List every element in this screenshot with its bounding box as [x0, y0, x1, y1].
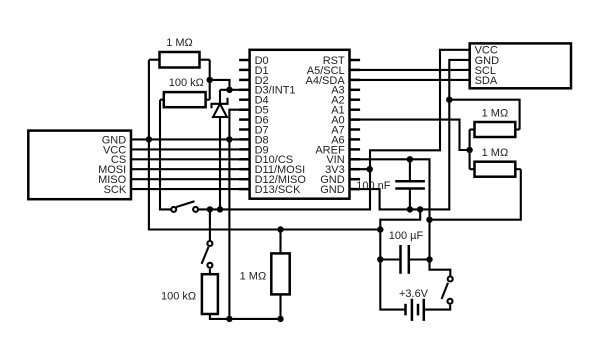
wire SCL: [350, 69, 470, 71]
U1 left pin labels: [255, 55, 307, 196]
wire SPI MISO to D12: [131, 178, 250, 180]
svg-text:1 MΩ: 1 MΩ: [482, 108, 509, 120]
resistor R1 1 MΩ (top left): [149, 52, 210, 68]
svg-text:100 µF: 100 µF: [389, 230, 424, 242]
switch S2: [202, 209, 213, 274]
svg-text:GND: GND: [320, 184, 345, 196]
junction S1 / S2 node A: [207, 206, 213, 212]
junction GND / R3 right: [446, 97, 452, 103]
wire VIN net: VIN pin right, down to S3: [350, 159, 451, 276]
svg-text:+3.6V: +3.6V: [399, 288, 429, 300]
resistor R2 100 kΩ (upper left): [160, 92, 210, 107]
U1 right pin stubs RST-GND: [350, 60, 361, 189]
wire R2 left down to switch S1: [160, 100, 171, 210]
zener diode D1: [212, 90, 228, 210]
SPI module box (left): [28, 131, 131, 200]
junction R5 bottom / rail end: [277, 316, 283, 322]
wire SPI MOSI to D11: [131, 168, 250, 170]
wire tie R3/R4 left: [469, 130, 471, 170]
wire GND branch to battery minus: [380, 209, 420, 309]
junction rail / D5 riser: [226, 316, 232, 322]
svg-text:SCK: SCK: [104, 184, 127, 196]
svg-text:1 MΩ: 1 MΩ: [166, 37, 193, 49]
junction jog / D3 wire: [226, 87, 232, 93]
wire 3V3 pin to riser: [350, 168, 370, 170]
I2C module pin labels: [475, 45, 500, 87]
junction zener anode node B: [217, 206, 223, 212]
wire SPI SCK to D13: [131, 188, 250, 190]
wire A0 to pull-up pair: [350, 120, 470, 150]
capacitor C1 100 nF: [395, 159, 425, 209]
junction 3V3 / riser: [367, 166, 373, 172]
junction R1-left / SPI GND: [146, 136, 152, 142]
svg-text:SDA: SDA: [475, 75, 498, 87]
svg-text:1 MΩ: 1 MΩ: [240, 270, 267, 282]
junction R5 top / GND rail: [277, 226, 283, 232]
wire R1/R2 right join: [209, 60, 211, 100]
switch S3: [442, 277, 453, 304]
switch S1: [171, 201, 198, 212]
resistor R6 100 kΩ (bottom): [202, 274, 281, 319]
junction GND / C1 bottom: [407, 206, 413, 212]
junction GND branch / C2 left: [377, 256, 383, 262]
wire GND net: I2C GND down, left under IC, up to GND pin: [350, 60, 470, 210]
junction VIN / R4 wire: [426, 217, 432, 223]
capacitor C2 100 µF: [380, 245, 429, 274]
wire R1 left down to GND rail: [149, 60, 380, 230]
junction A0 / tie: [466, 147, 472, 153]
junction GND branch: [417, 206, 423, 212]
I2C module box (top right): [470, 43, 571, 88]
wire jog to D3 net: [210, 80, 230, 90]
SPI module pin labels: [98, 134, 127, 196]
wire SPI VCC to D9: [131, 148, 250, 150]
svg-text:100 kΩ: 100 kΩ: [169, 77, 204, 89]
U1 right pin labels: [306, 55, 346, 196]
wire D3/INT1: [220, 89, 250, 91]
resistor R3 1 MΩ (right upper): [470, 122, 520, 137]
junction D5 wire / SPI GND wire: [226, 136, 232, 142]
U1 left pin stubs D0-D13: [239, 60, 250, 189]
junction VIN / C1 top: [407, 156, 413, 162]
resistor R4 1 MΩ (right lower): [470, 162, 521, 177]
wire D5 down to bottom rail: [229, 110, 249, 319]
wire VCC spine: S1 to 3V3 riser to VCC of I2C box: [198, 50, 469, 210]
svg-text:1 MΩ: 1 MΩ: [482, 147, 509, 159]
svg-text:D13/SCK: D13/SCK: [255, 184, 302, 196]
junction GND branch / rail: [377, 226, 383, 232]
resistor R5 1 MΩ (bottom middle): [271, 230, 289, 319]
wire R3 right to GND riser: [449, 100, 519, 130]
svg-text:100 nF: 100 nF: [356, 180, 391, 192]
wire battery plus to S3: [424, 305, 450, 310]
junction VIN / C2 right: [426, 256, 432, 262]
battery BT1 +3.6V: [406, 299, 424, 321]
junction R1/R2 node: [207, 77, 213, 83]
wire R4 right to VIN net: [430, 169, 521, 220]
wire SDA: [350, 79, 470, 81]
wire SPI GND to D8: [131, 138, 250, 140]
svg-text:100 kΩ: 100 kΩ: [161, 290, 196, 302]
wire SPI CS to D10: [131, 158, 250, 160]
IC U1 box: [250, 50, 350, 199]
